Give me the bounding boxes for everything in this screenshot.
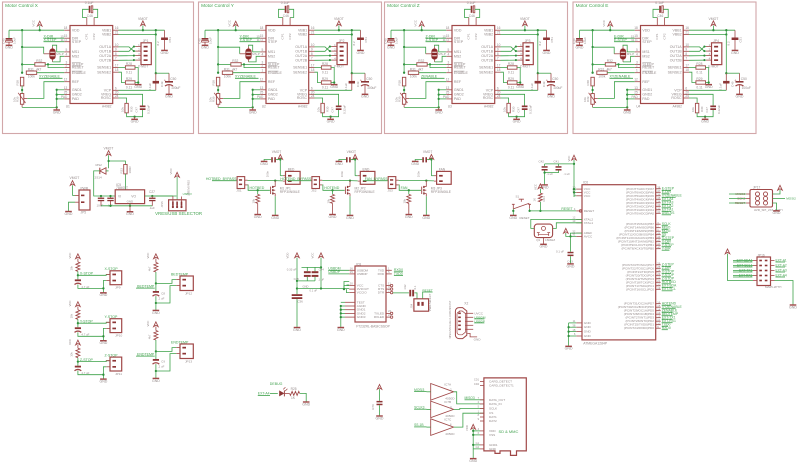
pin [349,292,355,294]
svg-text:GND: GND [53,110,61,114]
svg-text:24: 24 [311,94,315,98]
svg-text:SENSE1: SENSE1 [97,66,111,70]
svg-text:GND: GND [516,85,524,89]
svg-text:GND: GND [260,162,268,166]
svg-text:24: 24 [685,94,689,98]
pin [113,93,119,95]
svg-text:MS1: MS1 [454,50,461,54]
svg-text:ATMEGA1284P: ATMEGA1284P [583,341,608,345]
svg-text:FAN_BYPASS: FAN_BYPASS [365,177,388,181]
svg-text:FAN: FAN [401,186,408,190]
resonator MS [432,49,437,59]
svg-text:RXD: RXD [378,272,385,276]
wire VBB1 rail [501,29,547,31]
ground [254,214,261,216]
capacitor filter 4.7uF [75,327,81,329]
svg-text:R39: R39 [586,96,590,102]
wire [244,64,260,67]
wire [264,160,271,162]
capacitor C25 [110,196,112,198]
junction [515,55,517,57]
wire drain rail [399,180,434,182]
junction [77,322,79,324]
svg-text:0.1uF: 0.1uF [530,83,534,91]
wire [300,393,306,402]
wire ROSC [119,98,127,103]
svg-text:10k: 10k [326,198,330,203]
ground [6,44,13,46]
svg-text:34: 34 [657,200,660,204]
svg-text:0.22uF: 0.22uF [146,105,150,114]
pin [683,34,689,36]
junction [279,158,281,160]
junction [708,81,710,83]
svg-text:4: 4 [448,52,450,56]
svg-text:2S14: 2S14 [95,176,103,180]
wire [78,285,104,289]
pin [64,81,70,83]
junction [515,116,517,118]
svg-text:R30: R30 [511,106,515,112]
wire [77,319,79,327]
resonator MS [246,49,251,59]
svg-text:Motor Control Y: Motor Control Y [201,3,235,8]
wire [276,159,280,161]
svg-text:R28: R28 [696,62,702,66]
junction [333,81,335,83]
svg-text:R30: R30 [129,106,133,112]
svg-text:GND: GND [127,199,134,203]
wire [427,426,431,428]
svg-text:17: 17 [685,64,689,68]
svg-text:VCC: VCC [68,300,72,306]
wire [616,63,635,65]
svg-text:RESET: RESET [454,66,467,70]
svg-text:GND: GND [302,402,310,406]
svg-text:OUT2B: OUT2B [670,58,682,62]
svg-text:FAN: FAN [439,167,446,171]
svg-text:SENSE2: SENSE2 [668,70,682,74]
svg-text:GND: GND [99,293,107,297]
junction [257,189,259,191]
junction [329,116,331,118]
pin [495,50,501,52]
svg-text:21: 21 [657,279,660,283]
junction [438,106,440,108]
svg-text:0.1uF: 0.1uF [148,83,152,91]
wire [539,202,541,211]
svg-text:GND: GND [327,120,335,124]
pin [260,89,266,91]
junction [351,33,353,35]
pin [576,326,582,328]
capacitor C40 10uF [8,30,10,38]
svg-text:SENSE1: SENSE1 [293,66,307,70]
VCC supply symbol [233,21,238,26]
wire [545,171,559,173]
svg-text:JS4: JS4 [410,303,414,308]
wire [78,321,110,324]
svg-text:24: 24 [115,94,119,98]
wire [439,98,447,100]
ground [423,214,430,216]
svg-text:0.1: 0.1 [413,285,417,289]
ground [626,107,628,110]
svg-text:CD2: CD2 [474,382,480,386]
wire [430,159,432,176]
wire [103,367,106,379]
wire [217,104,219,107]
junction [537,29,539,31]
junction [403,72,405,74]
svg-text:VMOT: VMOT [423,150,432,154]
svg-text:Motor Control Z: Motor Control Z [387,3,420,8]
LED D1 [279,390,284,396]
wire [78,371,104,375]
junction [703,59,705,61]
stepper driver IC U3 A4982 [452,26,495,104]
capacitor C47 0.22uF [522,106,528,108]
pin [446,63,452,65]
junction [21,46,23,48]
wire [77,271,79,279]
svg-text:JS3: JS3 [387,189,393,193]
junction [217,63,219,65]
wire [427,159,431,161]
svg-text:GND: GND [152,379,160,383]
svg-text:USBDP: USBDP [357,272,368,276]
resistor R30 10k [695,103,698,113]
wire [689,59,706,61]
svg-text:C51: C51 [550,37,554,43]
svg-text:C41: C41 [554,159,560,163]
capacitor C49 0.1uF [725,73,727,81]
pin [64,72,70,74]
wire [78,360,110,363]
junction [626,89,628,91]
junction [39,29,41,31]
pin [309,46,315,48]
jumper JS4 PWR-SELECT [414,299,429,311]
ground [773,210,780,212]
wire [108,155,110,168]
junction [351,72,353,74]
svg-text:GND: GND [584,330,592,334]
pin RTS [386,288,390,290]
wire VCP [689,89,726,91]
svg-text:17: 17 [497,64,501,68]
wire VBB2 [689,30,726,34]
junction [56,89,58,91]
svg-text:GND: GND [346,216,354,220]
svg-text:18: 18 [634,26,638,30]
junction [543,171,545,173]
svg-text:23: 23 [657,272,660,276]
net label EXT-A1 [771,260,775,262]
pin TXLED [386,312,390,314]
pin [635,55,641,57]
svg-text:X2: X2 [464,301,468,305]
capacitor C49 0.1uF [155,73,157,81]
wire VBB vertical [155,35,157,74]
svg-text:13: 13 [64,86,68,90]
junction [340,312,342,314]
net label EXT-A4 [771,275,775,277]
svg-text:MS-P: MS-P [438,52,445,56]
VCC supply symbol [564,228,569,233]
capacitor C47 0.22uF [140,106,146,108]
junction [403,63,405,65]
svg-text:PAD: PAD [72,97,79,101]
svg-text:4k7: 4k7 [148,266,152,271]
wire [253,94,261,96]
terminal JS2 [312,177,320,189]
svg-text:GND1: GND1 [454,88,464,92]
wire [83,9,89,17]
ground [470,458,477,460]
pin [113,71,119,73]
junction [338,29,340,31]
wire [78,332,104,336]
junction [539,210,541,212]
svg-text:13: 13 [446,86,450,90]
ground [56,107,58,110]
pin [683,71,689,73]
VCC supply symbol [37,21,42,26]
svg-text:100k: 100k [224,74,231,78]
svg-text:MS1: MS1 [642,50,649,54]
svg-text:REF: REF [454,80,462,84]
svg-text:C40: C40 [198,38,202,44]
svg-text:GND: GND [623,110,631,114]
svg-text:.1 uF: .1 uF [318,278,325,282]
net label EXT-A2 [771,265,775,267]
svg-text:0.11: 0.11 [322,71,328,75]
svg-text:R28: R28 [508,62,514,66]
buffer IC7C 4050 [431,419,454,436]
svg-text:10uF: 10uF [583,37,587,44]
svg-text:PAD: PAD [454,97,461,101]
wire [39,26,41,30]
svg-text:24: 24 [657,269,660,273]
ground [362,93,369,95]
wire [119,47,136,52]
svg-text:GND: GND [567,264,575,268]
wire [270,392,278,394]
wire [103,328,106,340]
svg-text:R28: R28 [322,62,328,66]
svg-text:GND: GND [474,338,482,342]
svg-text:R28: R28 [126,62,132,66]
wire [622,46,624,48]
wire [501,67,508,69]
pin [746,198,750,200]
junction [591,63,593,65]
wire [156,354,176,371]
wire [352,72,365,74]
svg-text:100uF: 100uF [742,86,751,90]
svg-text:41: 41 [657,242,660,246]
svg-text:100k: 100k [410,74,417,78]
svg-text:CD1: CD1 [474,378,480,382]
svg-text:9: 9 [311,47,313,51]
junction [129,205,131,207]
wire [544,164,546,166]
svg-text:43: 43 [657,235,660,239]
pin [446,81,452,83]
wire gate [322,185,344,190]
svg-text:11: 11 [631,38,634,42]
svg-text:A4982: A4982 [102,105,112,109]
junction [725,72,727,74]
pin [309,59,315,61]
svg-text:20: 20 [657,283,660,287]
pin [495,71,501,73]
svg-text:JP10: JP10 [115,333,122,337]
wire VCCIO rail [297,288,349,290]
pin [468,18,470,26]
pin [446,29,452,31]
pin [656,18,658,26]
wire [573,160,575,197]
wire VBB1 rail [119,29,165,31]
svg-text:0.11: 0.11 [508,86,514,90]
pin [446,37,452,39]
svg-text:PAD: PAD [642,97,649,101]
svg-text:C47: C47 [517,107,521,113]
svg-text:RFP30N06LE: RFP30N06LE [431,190,452,194]
junction [438,98,440,100]
pin [576,235,582,237]
svg-text:22: 22 [657,276,660,280]
svg-text:GND: GND [65,212,73,216]
svg-text:JP12: JP12 [185,291,192,295]
capacitor C51 [360,30,362,37]
wire [315,67,322,69]
capacitor C49 0.1uF [537,73,539,81]
svg-text:MOSI2: MOSI2 [786,196,796,200]
svg-text:4: 4 [66,52,68,56]
resonator MS [50,49,55,59]
wire [340,306,342,324]
svg-text:40: 40 [657,246,660,250]
capacitor C49 0.1uF [351,73,353,81]
svg-text:DEBUG: DEBUG [270,382,283,386]
pin [309,97,315,99]
pin [345,312,355,314]
junction [403,46,405,48]
junction [524,29,526,31]
svg-text:GND: GND [376,416,384,420]
wire VDD rail [580,29,635,31]
svg-text:GND: GND [254,215,262,219]
svg-text:VCC: VCC [311,253,315,259]
pin [345,301,355,303]
capacitor C50 100uF [550,73,552,81]
wire [501,47,518,52]
pin [309,89,315,91]
svg-text:2: 2 [66,64,68,68]
svg-text:STEP: STEP [454,40,464,44]
svg-text:IC7C: IC7C [444,418,452,422]
svg-text:14: 14 [657,308,660,312]
svg-text:0.1 uF: 0.1 uF [310,289,318,293]
svg-text:RESET: RESET [268,66,281,70]
svg-text:18: 18 [572,328,575,332]
ground [153,309,160,311]
svg-text:7: 7 [497,56,499,60]
pin [309,55,315,57]
svg-text:S1: S1 [516,195,520,199]
svg-text:ROSC: ROSC [671,96,682,100]
resistor R24 1K [539,189,541,194]
wire [465,9,471,17]
svg-text:12: 12 [446,78,450,82]
pin [683,50,689,52]
svg-text:C9: C9 [161,360,165,364]
wire VBB vertical [351,35,353,74]
wire [355,175,358,177]
wire [57,98,64,100]
pin [635,51,641,53]
resistor R23 100R [124,165,127,174]
svg-text:10k: 10k [70,352,74,357]
ground [376,415,383,417]
svg-text:GND: GND [330,85,338,89]
ground [548,93,555,95]
junction [21,29,23,31]
junction [56,98,58,100]
wire VO [145,195,177,197]
svg-text:C32: C32 [403,284,407,289]
svg-text:0.1uF: 0.1uF [467,1,476,5]
svg-text:C51: C51 [739,37,743,43]
svg-text:11: 11 [634,38,638,42]
svg-text:GND3: GND3 [357,315,366,319]
wire [155,296,157,310]
svg-text:12: 12 [572,216,575,220]
svg-text:RESET: RESET [642,66,655,70]
wire [57,89,64,91]
resistor R30 10k [507,103,510,113]
pin [446,94,452,96]
SD card socket SD & MMC [484,378,526,456]
wire [393,292,409,294]
junction [425,179,427,181]
junction [155,302,157,304]
svg-text:CP2: CP2 [663,33,667,39]
svg-text:GND: GND [329,215,337,219]
pin [635,94,641,96]
svg-text:.1 uF: .1 uF [547,172,554,176]
svg-text:GND: GND [134,85,142,89]
svg-text:8: 8 [685,52,687,56]
junction [155,33,157,35]
svg-text:RESET: RESET [72,66,85,70]
svg-text:10: 10 [657,322,660,326]
junction [21,89,23,91]
wire [77,358,79,366]
ground [336,160,343,162]
capacitor C50 100uF [739,73,741,81]
svg-text:10k: 10k [120,107,124,112]
wire [434,46,436,48]
wire XTAL2 [531,219,582,228]
svg-text:OUT2A: OUT2A [481,54,493,58]
wire [431,175,434,177]
wire [593,63,606,65]
svg-text:C50: C50 [552,77,558,81]
